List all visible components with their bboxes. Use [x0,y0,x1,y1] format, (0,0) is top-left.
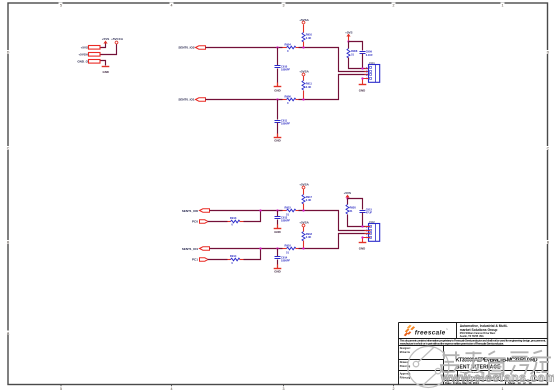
svg-text:freescale: freescale [415,329,446,336]
jumper SH902 +5VSA [89,53,101,57]
wire C915 to pin1 line [362,213,364,227]
svg-text:GND: GND [359,89,365,93]
resistor R910 [302,33,313,43]
svg-text:1800PF: 1800PF [281,122,291,126]
ground [102,66,110,68]
svg-text:M.Garcia: M.Garcia [400,351,411,354]
port SENT1_IO0 [200,209,210,212]
capacitor C915 [360,207,373,214]
svg-text:PC1: PC1 [192,257,198,261]
capacitor C911 [275,119,291,126]
svg-text:+5VSA: +5VSA [299,221,309,225]
node junction pin4 [361,77,363,79]
svg-text:D: D [7,51,10,55]
svg-text:3: 3 [283,4,285,8]
wire R908 to pin1 [349,58,369,69]
node junction +5VS branch [347,40,349,42]
wire +5VS to branch [347,198,349,199]
node junction R917/net [302,209,304,211]
wire +5VSA to R911 [303,76,305,81]
svg-text:SENT1_IO1: SENT1_IO1 [182,247,199,251]
ground [274,86,282,88]
resistor R908 [347,49,358,59]
svg-text:1800PF: 1800PF [281,219,291,223]
resistor R916 [283,244,299,255]
svg-text:P.Herczig: P.Herczig [400,376,411,379]
svg-text:GND: GND [274,269,280,273]
wire branch C909 [349,42,363,51]
wire net SENT0_IO1 [206,99,283,101]
svg-text:manufacture in whole or in par: manufacture in whole or in part without … [400,342,505,346]
wire jumper1 to +5VS [101,44,106,48]
svg-text:2.4K: 2.4K [306,85,312,89]
svg-text:SENT0_IO1: SENT0_IO1 [178,98,195,102]
power +5VSA pull-up 4 [302,224,305,227]
svg-text:+5VSA: +5VSA [299,18,309,22]
svg-text:C: C [547,147,550,151]
svg-text:GND_O: GND_O [77,60,88,64]
svg-text:R906: R906 [285,94,292,98]
resistor R904 [283,42,299,53]
wire R911 to net [303,91,305,100]
port PC0 [200,220,208,223]
svg-text:R914: R914 [230,254,237,258]
node junction R910/net [302,46,304,48]
svg-text:market Solutions Group: market Solutions Group [460,328,498,332]
svg-text:+5VS: +5VS [345,30,352,34]
wire branch R908 [348,42,350,49]
svg-text:Austin, TX 78735 USA: Austin, TX 78735 USA [460,335,484,338]
svg-text:2.4K: 2.4K [306,198,312,202]
power +5VSA pull-up 3 [302,186,305,189]
svg-text:P.Herczig: P.Herczig [400,365,411,368]
resistor R915 [283,206,299,217]
node junction C915/pin1 [361,225,363,227]
wire to connector pin2 [299,211,369,231]
wire pin4 to ground [363,238,369,243]
border zone ticks bottom [61,385,394,387]
svg-text:SENT0_IO2: SENT0_IO2 [178,46,195,50]
wire net SENT1_IO0 [210,210,283,212]
svg-text:D: D [547,51,550,55]
svg-text:™: ™ [446,328,448,331]
wire pin stubs [365,69,371,79]
wire junction to C911 [277,100,279,120]
svg-text:5: 5 [60,4,62,8]
connector J901 [369,61,380,83]
port SENT1_IO1 [200,247,210,250]
svg-text:+5VSA: +5VSA [299,70,309,74]
node junction C909/pin1 [361,67,363,69]
ground [359,242,367,244]
node junction R918/net [302,247,304,249]
wire junction to C914 [277,249,279,257]
node junction pin4 [361,236,363,238]
wire C914 to ground [277,260,279,265]
capacitor C913 [275,215,291,222]
svg-text:PC0: PC0 [192,219,198,223]
svg-text:J902: J902 [369,220,376,224]
node junction PC0/netA [259,209,261,211]
wire C911 to ground [277,123,279,134]
date/sheet row [445,381,532,385]
watermark [408,346,449,387]
svg-text:C: C [7,147,10,151]
svg-text:Designer:: Designer: [400,347,411,350]
power +5VS bottom right [345,195,349,198]
node junction C913 [276,209,278,211]
svg-text:+5VCCA: +5VCCA [111,37,124,41]
svg-text:R904: R904 [285,42,292,46]
wire jumper2 to +5VCCA [101,44,117,55]
wire +5VSA to R918 [303,227,305,232]
svg-text:GND: GND [359,247,365,251]
svg-text:2.4K: 2.4K [306,235,312,239]
wire R918 to net [303,241,305,249]
svg-text:4: 4 [171,387,173,391]
wire C913 to ground [277,220,279,225]
resistor R920 [346,205,356,215]
svg-text:+5VS: +5VS [102,37,109,41]
node junction +5VS branch 2 [346,197,348,199]
svg-text:2: 2 [393,4,395,8]
wire pin4 to ground [363,79,369,85]
svg-text:GND: GND [274,230,280,234]
svg-text:1800PF: 1800PF [281,68,291,72]
node junction C911 [276,98,278,100]
wire branch R920 [347,199,349,205]
svg-text:R916: R916 [285,244,292,248]
wire to connector pin2 [299,48,369,72]
ground [274,228,282,230]
svg-text:4: 4 [171,4,173,8]
svg-text:1: 1 [502,4,504,8]
svg-text:3: 3 [283,387,285,391]
wire jumper3 to ground [101,61,106,66]
jumper SH901 +5VS [89,46,101,50]
resistor R918 [302,232,313,242]
wire pin stubs [365,227,371,238]
port SENT0_IO2 [196,46,206,49]
svg-text:1: 1 [502,387,504,391]
ground [274,137,282,139]
connector J902 [369,220,380,242]
wire to connector pin3 [299,234,369,249]
svg-text:2: 2 [393,387,395,391]
svg-text:+5VSA: +5VSA [78,53,88,57]
resistor R906 [283,94,299,105]
wire R913 to net A [244,211,261,222]
resistor R914 [228,254,244,265]
power +5VCCA [115,41,118,44]
designer fields [400,347,411,379]
wire branch C915 [348,199,363,210]
port SENT0_IO1 [196,98,206,101]
svg-text:6501 William Cannon Drive West: 6501 William Cannon Drive West [460,332,496,335]
wire R910 to net [303,42,305,48]
wire PC0 to R913 [208,221,228,223]
svg-text:+5VS: +5VS [81,46,88,50]
power +5VS top right [346,34,350,37]
ground [359,84,367,86]
wire R920 to pin1 [348,215,369,227]
svg-text:SENT1_IO0: SENT1_IO0 [182,209,199,213]
freescale logo [404,325,448,337]
wire R917 to net [303,204,305,211]
svg-text:GND: GND [274,88,280,92]
wire to connector pin3 [299,75,369,100]
svg-text:R913: R913 [230,216,237,220]
wire junction to C910 [277,48,279,66]
svg-text:47UF: 47UF [366,211,373,215]
svg-text:GND: GND [102,70,108,74]
capacitor C910 [275,64,291,71]
power +5VSA pull-up 2 [302,73,305,76]
wire +5VSA to R910 [303,25,305,33]
title block group address [460,324,508,332]
resistor R917 [302,195,313,205]
power +5VSA pull-up 1 [302,21,305,24]
node junction C910 [276,46,278,48]
ground [274,268,282,270]
power +5VS [103,41,107,44]
node junction R911/net [302,98,304,100]
wire +5VS to branch [348,37,350,42]
capacitor C909 [360,50,374,57]
svg-text:2.4K: 2.4K [306,36,312,40]
wire +5VSA to R917 [303,189,305,195]
wire junction to C913 [277,211,279,217]
resistor R913 [228,216,244,227]
size/document/rev row [445,371,542,379]
resistor R911 [302,81,312,91]
wire R914 to net C [244,249,261,260]
wire C909 to pin1 line [362,54,364,69]
svg-text:www.elecfans.com: www.elecfans.com [440,371,554,385]
node junction PC1/netC [259,247,261,249]
capacitor C914 [275,255,291,262]
svg-text:+5VSA: +5VSA [299,183,309,187]
svg-text:1800PF: 1800PF [281,259,291,263]
port PC1 [200,258,208,261]
svg-text:J901: J901 [369,61,376,65]
svg-text:R915: R915 [285,206,292,210]
svg-text:0.1UF: 0.1UF [366,53,373,57]
wire net SENT1_IO1 [210,248,283,250]
wire C910 to ground [277,69,279,83]
svg-text:GND: GND [274,139,280,143]
svg-text:+5VS: +5VS [344,191,351,195]
wire net SENT0_IO2 [206,47,283,49]
jumper SH903 GND_O [89,60,101,64]
svg-text:5: 5 [60,387,62,391]
svg-text:51: 51 [286,251,289,255]
node junction C914 [276,247,278,249]
wire PC1 to R914 [208,259,228,261]
disclaimer [400,339,546,346]
